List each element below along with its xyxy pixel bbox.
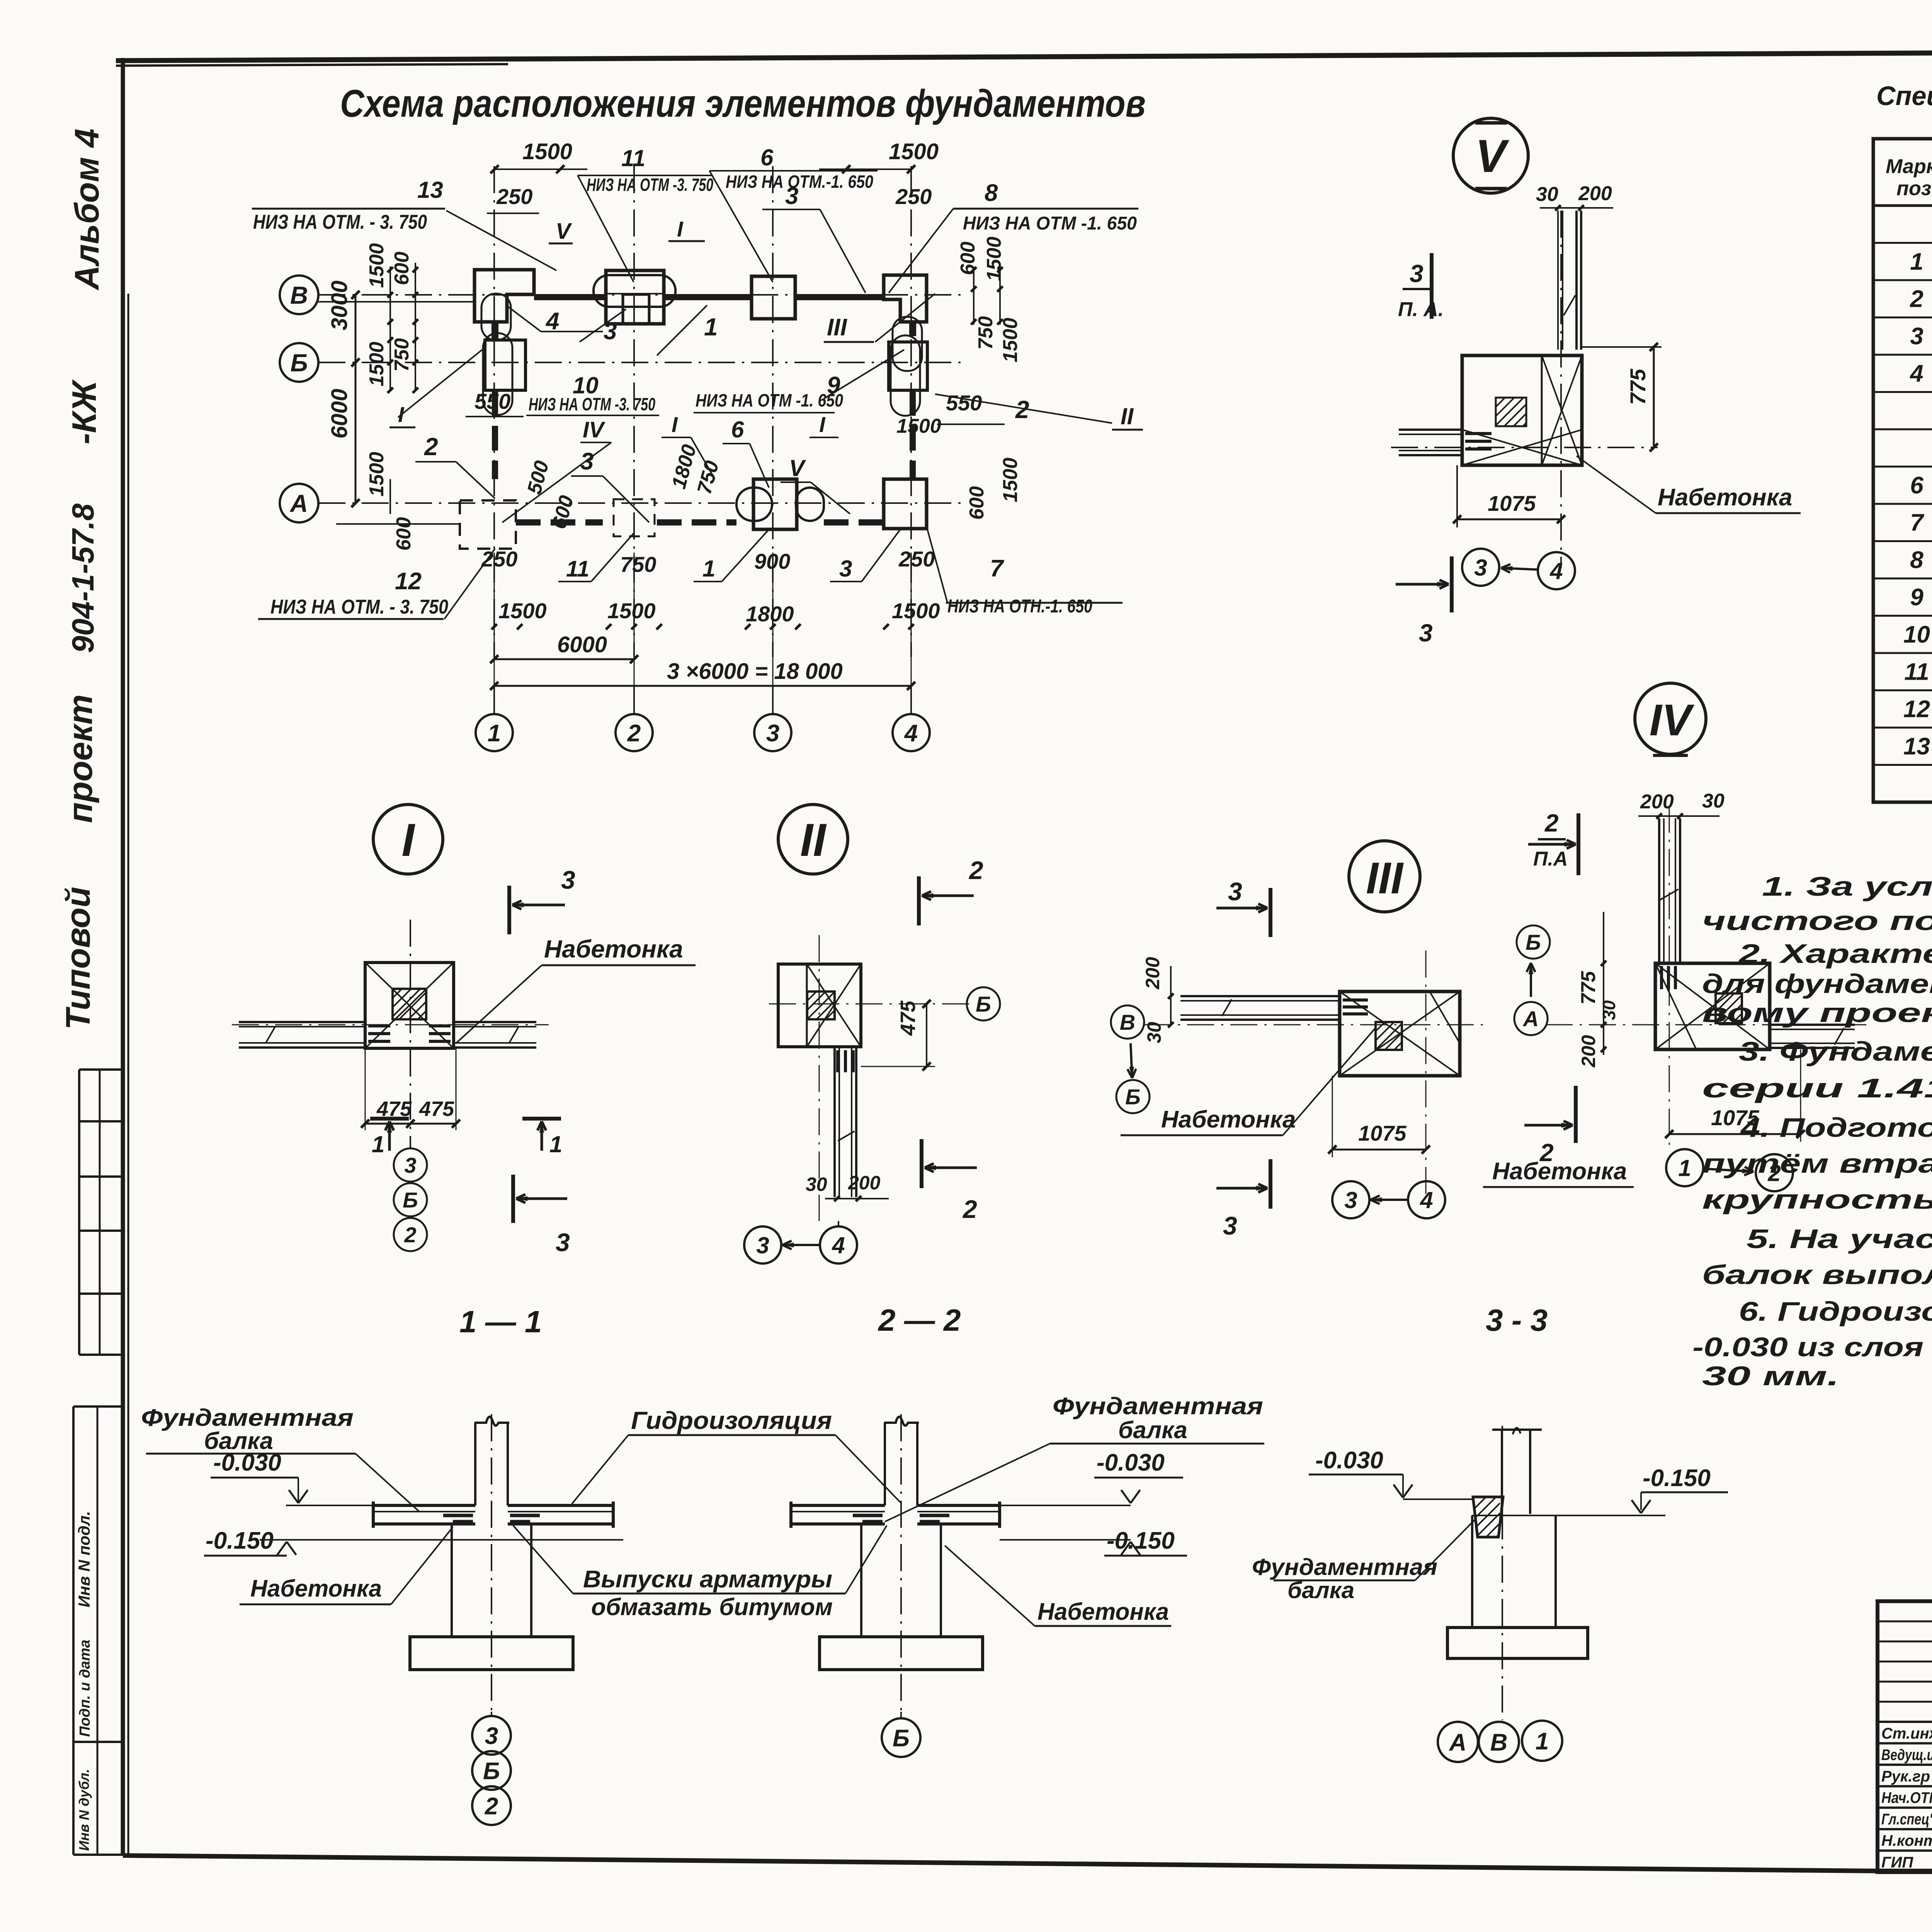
svg-text:-0.150: -0.150 (206, 1527, 274, 1554)
svg-text:4: 4 (832, 1233, 845, 1259)
svg-text:750: 750 (975, 316, 997, 350)
svg-text:600: 600 (391, 252, 413, 285)
svg-text:-КЖ: -КЖ (65, 379, 103, 444)
svg-text:200: 200 (1578, 1035, 1599, 1068)
svg-text:-0.150: -0.150 (1643, 1465, 1711, 1492)
svg-text:3 ×6000 = 18 000: 3 ×6000 = 18 000 (667, 659, 843, 684)
svg-text:6000: 6000 (557, 632, 607, 657)
svg-text:1500: 1500 (607, 599, 656, 623)
svg-text:200: 200 (848, 1172, 881, 1194)
svg-text:Ст.инж.: Ст.инж. (1881, 1725, 1932, 1742)
svg-text:3: 3 (1410, 260, 1423, 287)
svg-text:Б: Б (290, 349, 308, 377)
svg-text:1075: 1075 (1358, 1121, 1406, 1145)
svg-text:балок выполнить набетонки и: балок выполнить набетонки из бетона марк… (1702, 1260, 1932, 1290)
svg-text:Б: Б (1125, 1085, 1141, 1109)
svg-text:Рук.гр: Рук.гр (1881, 1768, 1930, 1785)
svg-text:600: 600 (957, 241, 979, 275)
svg-text:балка: балка (204, 1428, 273, 1454)
svg-text:НИЗ НА ОТМ -3. 750: НИЗ НА ОТМ -3. 750 (587, 175, 713, 195)
svg-text:11: 11 (566, 556, 589, 582)
svg-text:I: I (677, 217, 684, 241)
svg-text:13: 13 (417, 177, 443, 203)
svg-text:4: 4 (1549, 558, 1563, 584)
svg-text:НИЗ НА ОТН.-1. 650: НИЗ НА ОТН.-1. 650 (947, 596, 1092, 617)
svg-text:-0.030: -0.030 (1097, 1449, 1165, 1476)
svg-text:серии 1.412-1/77.: серии 1.412-1/77. (1702, 1073, 1932, 1103)
svg-text:поз.: поз. (1896, 177, 1932, 200)
svg-text:1500: 1500 (889, 139, 939, 164)
svg-text:250: 250 (895, 184, 932, 209)
svg-text:30: 30 (1536, 183, 1558, 206)
svg-text:Типовой: Типовой (59, 887, 97, 1030)
svg-text:8: 8 (1910, 547, 1923, 573)
svg-text:III: III (1366, 854, 1404, 903)
svg-text:3 - 3: 3 - 3 (1486, 1303, 1548, 1337)
svg-text:V: V (1475, 130, 1510, 182)
svg-text:3: 3 (766, 720, 779, 747)
svg-text:11: 11 (621, 145, 645, 171)
svg-text:4. Подготовку основания под: 4. Подготовку основания под фундаменты в… (1740, 1112, 1932, 1143)
svg-text:Подп. и дата: Подп. и дата (77, 1639, 93, 1737)
svg-text:3000: 3000 (327, 281, 352, 330)
svg-text:Б: Б (403, 1188, 418, 1212)
svg-text:2: 2 (1544, 809, 1559, 837)
svg-text:3: 3 (756, 1233, 769, 1259)
svg-text:Набетонка: Набетонка (1161, 1106, 1296, 1133)
svg-text:2: 2 (968, 856, 983, 884)
svg-text:2: 2 (1910, 286, 1923, 312)
svg-text:30: 30 (1599, 1000, 1619, 1020)
svg-text:I: I (672, 412, 678, 437)
svg-text:11: 11 (1904, 658, 1929, 685)
svg-text:Набетонка: Набетонка (1658, 484, 1792, 511)
svg-text:750: 750 (391, 338, 413, 372)
svg-text:В: В (1120, 1010, 1135, 1034)
svg-text:Спецификация к схеме распол: Спецификация к схеме расположения элемен… (1876, 81, 1932, 111)
svg-text:1500: 1500 (983, 236, 1005, 281)
svg-text:2: 2 (404, 1223, 416, 1247)
svg-text:30: 30 (1143, 1022, 1165, 1043)
svg-text:3: 3 (404, 1153, 416, 1177)
svg-text:10: 10 (1903, 621, 1930, 648)
svg-text:Набетонка: Набетонка (544, 935, 683, 963)
svg-text:Ведущ.инж: Ведущ.инж (1881, 1747, 1932, 1764)
svg-text:П.А: П.А (1533, 848, 1568, 870)
svg-text:III: III (827, 314, 847, 341)
svg-text:775: 775 (1577, 971, 1600, 1005)
svg-text:обмазать битумом: обмазать битумом (591, 1594, 833, 1621)
svg-text:Альбом 4: Альбом 4 (68, 129, 106, 291)
svg-text:7: 7 (1910, 509, 1924, 536)
svg-text:П. А.: П. А. (1398, 298, 1444, 321)
svg-text:200: 200 (1142, 957, 1163, 990)
svg-text:Б: Б (1526, 930, 1541, 954)
svg-text:А: А (1522, 1007, 1539, 1031)
svg-text:750: 750 (620, 552, 656, 577)
svg-text:9: 9 (1910, 584, 1923, 611)
svg-text:250: 250 (898, 547, 935, 571)
svg-text:-0.030 из слоя цементного р: -0.030 из слоя цементного раствора соста… (1692, 1332, 1932, 1362)
svg-text:4: 4 (1909, 360, 1923, 387)
svg-text:Фундаментная: Фундаментная (1252, 1554, 1437, 1580)
svg-text:НИЗ НА ОТМ. - 3. 750: НИЗ НА ОТМ. - 3. 750 (253, 211, 427, 233)
svg-text:проект: проект (61, 694, 99, 823)
svg-text:IV: IV (583, 417, 605, 442)
svg-text:3: 3 (839, 556, 852, 582)
svg-text:30: 30 (1702, 790, 1725, 812)
svg-text:250: 250 (481, 547, 517, 571)
svg-text:2: 2 (485, 1793, 498, 1820)
svg-text:1: 1 (488, 720, 501, 747)
svg-text:3: 3 (485, 1723, 498, 1749)
svg-text:3: 3 (604, 318, 617, 345)
svg-text:1500: 1500 (522, 139, 572, 164)
svg-text:-0.150: -0.150 (1107, 1527, 1175, 1554)
svg-text:Гидроизоляция: Гидроизоляция (631, 1406, 832, 1434)
svg-text:1500: 1500 (498, 599, 547, 623)
svg-text:I: I (398, 402, 405, 427)
svg-text:Б: Б (483, 1758, 500, 1784)
svg-text:Выпуски арматуры: Выпуски арматуры (583, 1566, 832, 1593)
svg-text:НИЗ НА ОТМ -3. 750: НИЗ НА ОТМ -3. 750 (529, 394, 655, 414)
svg-text:1500: 1500 (892, 599, 940, 623)
svg-text:3: 3 (561, 866, 575, 894)
svg-text:904-1-57.8: 904-1-57.8 (66, 503, 100, 653)
svg-text:1075: 1075 (1711, 1105, 1759, 1130)
svg-text:1500: 1500 (366, 243, 388, 288)
svg-text:Фундаментная: Фундаментная (1053, 1393, 1263, 1420)
svg-text:1 — 1: 1 — 1 (459, 1304, 542, 1339)
svg-text:475: 475 (419, 1097, 454, 1121)
svg-text:НИЗ НА ОТМ.-1. 650: НИЗ НА ОТМ.-1. 650 (726, 172, 873, 192)
svg-text:3: 3 (1474, 555, 1487, 581)
svg-text:3: 3 (1419, 619, 1433, 647)
svg-text:200: 200 (1578, 182, 1612, 205)
svg-text:Инв N подл.: Инв N подл. (75, 1511, 93, 1607)
svg-text:4: 4 (1420, 1187, 1433, 1213)
svg-text:1. За условную отметку 0.00: 1. За условную отметку 0.000 принят уров… (1762, 871, 1932, 901)
svg-text:250: 250 (496, 184, 532, 209)
svg-text:1: 1 (1678, 1155, 1691, 1181)
svg-text:6. Гидроизоляция под стены: 6. Гидроизоляция под стены выполняется н… (1739, 1296, 1932, 1327)
svg-text:путём втрамбования в грунт: путём втрамбования в грунт щебня или гра… (1702, 1148, 1932, 1179)
svg-text:3: 3 (1228, 877, 1242, 906)
svg-text:Гл.спец'то: Гл.спец'то (1881, 1811, 1932, 1828)
svg-text:1: 1 (702, 556, 715, 582)
svg-text:В: В (1490, 1729, 1508, 1756)
svg-text:1075: 1075 (1488, 491, 1536, 515)
svg-text:НИЗ НА ОТМ -1. 650: НИЗ НА ОТМ -1. 650 (696, 390, 843, 410)
svg-text:4: 4 (904, 720, 918, 747)
svg-text:А: А (289, 490, 308, 517)
svg-text:балка: балка (1118, 1417, 1187, 1444)
svg-text:600: 600 (393, 517, 415, 551)
svg-text:2: 2 (627, 720, 641, 747)
svg-text:1800: 1800 (746, 602, 794, 626)
svg-text:12: 12 (395, 568, 422, 595)
svg-text:2: 2 (424, 433, 438, 461)
svg-text:1500: 1500 (366, 342, 388, 386)
svg-text:4: 4 (545, 308, 559, 335)
svg-text:30: 30 (806, 1173, 827, 1195)
svg-text:6: 6 (1910, 472, 1923, 499)
svg-text:3: 3 (580, 448, 594, 475)
svg-text:6000: 6000 (327, 389, 352, 439)
svg-text:Фундаментная: Фундаментная (141, 1405, 354, 1431)
svg-text:Набетонка: Набетонка (1037, 1599, 1169, 1625)
svg-text:2: 2 (962, 1195, 977, 1223)
svg-text:I: I (401, 814, 415, 866)
svg-text:3. Фундаменты выполняются в: 3. Фундаменты выполняются в типовой опал… (1739, 1036, 1932, 1066)
svg-text:1500: 1500 (999, 318, 1022, 362)
svg-text:3: 3 (1344, 1187, 1357, 1213)
svg-text:ГИП: ГИП (1881, 1854, 1913, 1871)
svg-text:НИЗ НА ОТМ -1. 650: НИЗ НА ОТМ -1. 650 (963, 213, 1137, 234)
svg-text:1500: 1500 (999, 457, 1022, 502)
svg-text:475: 475 (896, 1000, 920, 1036)
svg-text:В: В (290, 281, 308, 309)
svg-text:6: 6 (731, 417, 744, 442)
svg-text:I: I (819, 412, 826, 437)
svg-text:Инв N дубл.: Инв N дубл. (76, 1769, 92, 1851)
svg-text:V: V (789, 455, 806, 481)
svg-text:Набетонка: Набетонка (250, 1575, 382, 1602)
svg-text:II: II (1121, 403, 1134, 429)
svg-text:1: 1 (1910, 248, 1923, 275)
svg-text:крупностью 40-60мм.: крупностью 40-60мм. (1702, 1184, 1932, 1214)
svg-text:Б: Б (976, 992, 991, 1016)
svg-text:V: V (556, 219, 572, 244)
svg-text:А: А (1449, 1729, 1467, 1756)
svg-text:600: 600 (966, 486, 988, 520)
svg-text:12: 12 (1903, 696, 1930, 723)
svg-text:1500: 1500 (366, 452, 388, 497)
svg-text:3: 3 (556, 1228, 570, 1257)
svg-text:3: 3 (1910, 323, 1923, 350)
svg-text:2: 2 (1767, 1160, 1781, 1186)
svg-text:Марка: Марка (1886, 155, 1932, 178)
svg-text:13: 13 (1903, 733, 1930, 760)
svg-text:1: 1 (549, 1131, 562, 1157)
svg-text:чистого пола первого этажа: чистого пола первого этажа машинного зал… (1702, 906, 1932, 936)
svg-text:Б: Б (893, 1725, 910, 1752)
svg-text:1: 1 (704, 313, 718, 341)
svg-text:5. На участках между торцам: 5. На участках между торцами фундаментны… (1747, 1224, 1932, 1254)
svg-text:Н.контр: Н.контр (1881, 1832, 1932, 1849)
svg-text:3: 3 (1223, 1211, 1237, 1240)
svg-text:2 — 2: 2 — 2 (878, 1303, 961, 1337)
svg-text:Нач.ОТП-1: Нач.ОТП-1 (1881, 1789, 1932, 1806)
svg-text:550: 550 (946, 391, 982, 415)
svg-text:IV: IV (1650, 696, 1695, 745)
svg-text:1500: 1500 (896, 415, 941, 437)
svg-text:НИЗ НА ОТМ. - 3. 750: НИЗ НА ОТМ. - 3. 750 (270, 596, 448, 618)
svg-text:7: 7 (990, 555, 1004, 582)
svg-text:8: 8 (985, 180, 998, 206)
svg-text:550: 550 (474, 389, 510, 413)
svg-text:1: 1 (1536, 1728, 1549, 1755)
svg-text:3: 3 (785, 183, 798, 209)
svg-text:30 мм.: 30 мм. (1702, 1361, 1839, 1391)
svg-text:1: 1 (372, 1131, 384, 1157)
svg-text:-0.030: -0.030 (1315, 1447, 1383, 1474)
svg-text:775: 775 (1626, 369, 1650, 405)
svg-text:II: II (800, 814, 827, 866)
svg-text:Схема расположения элементов: Схема расположения элементов фундаментов (340, 82, 1146, 125)
svg-text:Набетонка: Набетонка (1492, 1158, 1627, 1185)
svg-text:6: 6 (760, 145, 774, 170)
